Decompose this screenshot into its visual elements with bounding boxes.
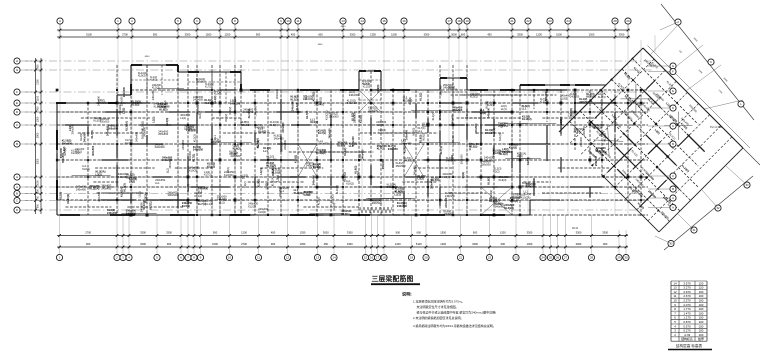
svg-text:950: 950: [37, 204, 40, 209]
svg-text:700: 700: [37, 195, 40, 200]
svg-text:1200: 1200: [241, 230, 247, 234]
svg-text:600: 600: [501, 242, 506, 246]
svg-text:450: 450: [291, 32, 296, 36]
svg-text:240x450: 240x450: [151, 90, 155, 101]
svg-text:450: 450: [487, 32, 492, 36]
svg-text:KL6(2): KL6(2): [233, 147, 241, 151]
svg-text:PL=-0.050: PL=-0.050: [710, 125, 723, 129]
svg-text:240x350: 240x350: [388, 147, 399, 151]
svg-text:16: 16: [370, 256, 374, 260]
svg-text:3300: 3300: [185, 32, 191, 36]
svg-text:KL2(3): KL2(3): [194, 194, 202, 198]
svg-text:2.未注明的梁箍筋加密区详见总说明。: 2.未注明的梁箍筋加密区详见总说明。: [413, 315, 464, 320]
svg-text:KL9(3): KL9(3): [408, 97, 412, 105]
svg-text:1500: 1500: [391, 32, 397, 36]
svg-text:10: 10: [286, 19, 290, 23]
svg-text:900: 900: [37, 106, 40, 111]
svg-text:240x450: 240x450: [76, 187, 87, 191]
svg-text:12: 12: [286, 256, 290, 260]
svg-text:L1(1): L1(1): [151, 116, 155, 122]
svg-text:1900: 1900: [37, 132, 40, 138]
svg-text:250x500: 250x500: [119, 96, 123, 107]
svg-text:KL3(2A): KL3(2A): [143, 192, 147, 202]
svg-text:L2(2): L2(2): [559, 119, 563, 125]
svg-text:KL10(2): KL10(2): [335, 185, 339, 194]
svg-text:KL3(2A): KL3(2A): [266, 164, 276, 168]
svg-text:300x500: 300x500: [196, 81, 206, 84]
svg-text:240x500: 240x500: [444, 212, 455, 216]
svg-text:L2(2): L2(2): [276, 175, 280, 181]
svg-text:900: 900: [153, 32, 158, 36]
svg-text:KL2(3): KL2(3): [598, 95, 606, 99]
svg-text:3300: 3300: [576, 230, 582, 234]
svg-text:17: 17: [376, 256, 380, 260]
svg-text:KL3(2A): KL3(2A): [325, 110, 329, 120]
svg-text:KL6(2): KL6(2): [258, 129, 266, 133]
svg-text:3300: 3300: [424, 32, 430, 36]
svg-text:240x600: 240x600: [118, 175, 129, 179]
svg-text:KL5(3): KL5(3): [257, 179, 261, 187]
svg-text:KL5(3): KL5(3): [270, 123, 278, 127]
svg-text:L1(1): L1(1): [461, 172, 465, 178]
svg-text:21: 21: [459, 256, 463, 260]
svg-text:KL10(2): KL10(2): [247, 109, 251, 119]
svg-text:L2(2): L2(2): [243, 181, 247, 187]
svg-text:KL7(1): KL7(1): [149, 201, 153, 209]
svg-text:三层梁配筋图: 三层梁配筋图: [372, 274, 414, 283]
svg-text:29: 29: [617, 256, 621, 260]
svg-text:L1(1): L1(1): [259, 168, 263, 174]
svg-text:L2(2): L2(2): [494, 170, 500, 174]
svg-text:KL2(3): KL2(3): [188, 128, 196, 132]
svg-text:L2(2): L2(2): [122, 108, 126, 114]
svg-text:240x600: 240x600: [349, 93, 360, 97]
svg-text:L1(1): L1(1): [185, 199, 189, 205]
svg-text:240x350: 240x350: [570, 96, 580, 99]
svg-text:3300: 3300: [619, 32, 625, 36]
svg-text:240x350: 240x350: [526, 185, 537, 189]
svg-text:KL2(3): KL2(3): [79, 133, 83, 141]
svg-text:240x350: 240x350: [445, 194, 456, 198]
svg-text:LL1: LL1: [155, 181, 160, 185]
svg-text:5100: 5100: [416, 242, 422, 246]
svg-text:4840: 4840: [318, 44, 324, 46]
svg-text:KL5(3): KL5(3): [470, 96, 478, 99]
svg-text:240x400: 240x400: [404, 129, 408, 140]
svg-text:3300: 3300: [347, 230, 353, 234]
svg-text:KL1(2): KL1(2): [343, 147, 347, 155]
svg-text:240x600: 240x600: [347, 101, 358, 105]
svg-text:900: 900: [213, 230, 218, 234]
svg-text:KL5(3): KL5(3): [165, 118, 169, 126]
svg-text:240x400: 240x400: [311, 175, 315, 186]
svg-text:KL6(2): KL6(2): [293, 155, 297, 163]
svg-text:17: 17: [447, 19, 451, 23]
svg-text:A: A: [672, 196, 674, 200]
svg-text:KL6(2): KL6(2): [524, 192, 532, 196]
svg-text:1500: 1500: [556, 32, 562, 36]
svg-text:L2(2): L2(2): [264, 183, 268, 189]
svg-text:250x500: 250x500: [368, 109, 379, 113]
svg-text:KL6(2): KL6(2): [310, 120, 318, 124]
svg-text:240x500: 240x500: [492, 147, 496, 158]
svg-text:3300: 3300: [347, 242, 353, 246]
svg-text:240x600: 240x600: [106, 125, 110, 136]
svg-text:1100: 1100: [37, 95, 40, 101]
svg-text:KL7(1): KL7(1): [318, 131, 326, 135]
svg-text:30: 30: [624, 256, 628, 260]
svg-text:250x500: 250x500: [122, 86, 126, 97]
svg-text:240x400: 240x400: [465, 107, 469, 118]
svg-text:15: 15: [382, 19, 386, 23]
svg-text:250x500: 250x500: [329, 115, 340, 119]
svg-text:250x500: 250x500: [62, 141, 73, 145]
svg-text:28: 28: [613, 19, 617, 23]
svg-text:KL7(1): KL7(1): [439, 146, 443, 154]
svg-text:240x600: 240x600: [211, 140, 222, 144]
svg-text:19: 19: [465, 19, 469, 23]
svg-text:240x600: 240x600: [231, 154, 242, 158]
svg-text:240x500: 240x500: [291, 101, 295, 112]
svg-text:KL9(3): KL9(3): [499, 178, 507, 182]
svg-text:LL1: LL1: [198, 190, 203, 194]
svg-text:C: C: [672, 124, 674, 128]
svg-text:48.44: 48.44: [572, 227, 579, 230]
svg-text:1350: 1350: [300, 230, 306, 234]
svg-text:1.本层梁顶标高除注明外均为3.570m。: 1.本层梁顶标高除注明外均为3.570m。: [413, 299, 465, 304]
svg-text:KL1(2): KL1(2): [295, 102, 299, 110]
svg-text:KL9(3): KL9(3): [207, 164, 215, 168]
svg-text:1200: 1200: [500, 230, 506, 234]
svg-text:KL3(2A): KL3(2A): [403, 143, 407, 153]
svg-text:板厚: 板厚: [698, 336, 704, 341]
svg-text:4840: 4840: [341, 26, 347, 28]
svg-text:KL9(3): KL9(3): [138, 75, 146, 78]
svg-text:F: F: [672, 70, 674, 74]
svg-text:3300: 3300: [350, 32, 356, 36]
svg-text:18: 18: [457, 19, 461, 23]
svg-text:240x400: 240x400: [278, 186, 282, 197]
svg-text:KL5(3): KL5(3): [376, 123, 384, 127]
svg-text:KL2(3): KL2(3): [152, 87, 160, 90]
svg-text:1200: 1200: [225, 32, 231, 36]
svg-text:KL1(2): KL1(2): [498, 133, 502, 141]
svg-text:KL5(3): KL5(3): [332, 203, 336, 211]
svg-text:未注明梁定位尺寸详见建施图。: 未注明梁定位尺寸详见建施图。: [417, 304, 459, 309]
svg-text:15: 15: [364, 256, 368, 260]
svg-text:250x500: 250x500: [438, 109, 442, 120]
svg-text:3300: 3300: [576, 242, 582, 246]
svg-text:900: 900: [167, 242, 172, 246]
svg-text:28: 28: [590, 256, 594, 260]
svg-text:300x500: 300x500: [356, 170, 360, 181]
svg-text:KL2(3): KL2(3): [317, 197, 321, 205]
svg-text:KL5(3): KL5(3): [98, 101, 106, 105]
svg-text:3300: 3300: [140, 242, 146, 246]
svg-text:KL7(1): KL7(1): [198, 202, 206, 206]
svg-text:L1(1): L1(1): [138, 191, 142, 197]
svg-text:K: K: [710, 60, 712, 64]
svg-text:240x450: 240x450: [599, 99, 603, 110]
svg-text:KL6(2): KL6(2): [258, 210, 266, 214]
svg-text:KL1(2): KL1(2): [205, 202, 213, 206]
svg-text:G: G: [672, 64, 674, 68]
svg-text:L2(2): L2(2): [62, 146, 66, 152]
svg-text:300x500: 300x500: [91, 145, 95, 156]
svg-text:1200: 1200: [440, 242, 446, 246]
svg-text:4840: 4840: [145, 56, 151, 58]
svg-text:23: 23: [514, 256, 518, 260]
svg-text:L1(1): L1(1): [180, 116, 186, 120]
svg-text:A: A: [672, 206, 674, 210]
svg-text:900: 900: [86, 242, 91, 246]
svg-text:240x450: 240x450: [430, 178, 434, 189]
svg-text:KL3(2A): KL3(2A): [125, 121, 129, 131]
svg-text:KL9(3): KL9(3): [214, 93, 222, 96]
svg-text:KL1(2): KL1(2): [213, 95, 217, 103]
svg-text:L2(2): L2(2): [316, 164, 320, 170]
svg-text:2700: 2700: [85, 230, 91, 234]
svg-text:240x350: 240x350: [404, 159, 415, 163]
svg-text:KL9(3): KL9(3): [569, 108, 573, 116]
svg-text:1300: 1300: [37, 116, 40, 122]
svg-text:KL10(2): KL10(2): [204, 101, 214, 105]
svg-text:KL9(3): KL9(3): [337, 143, 345, 147]
svg-text:240x400: 240x400: [134, 131, 138, 142]
svg-text:KL5(3): KL5(3): [469, 145, 477, 149]
svg-text:KL3(2A): KL3(2A): [89, 187, 99, 191]
svg-text:24: 24: [566, 19, 570, 23]
svg-text:240x450: 240x450: [101, 186, 112, 190]
svg-text:A: A: [59, 19, 61, 23]
svg-text:B: B: [16, 192, 18, 196]
svg-text:250x500: 250x500: [381, 159, 385, 170]
svg-text:KL7(1): KL7(1): [204, 173, 212, 177]
svg-text:LL1: LL1: [165, 168, 169, 173]
svg-text:3300: 3300: [602, 230, 608, 234]
svg-text:240x350: 240x350: [230, 101, 241, 105]
svg-text:KL9(3): KL9(3): [443, 175, 451, 179]
svg-text:650: 650: [37, 189, 40, 194]
svg-text:KL7(1): KL7(1): [90, 130, 94, 138]
svg-text:KL2(3): KL2(3): [248, 204, 256, 208]
svg-text:LL1: LL1: [263, 149, 268, 153]
svg-text:KL7(1): KL7(1): [125, 141, 133, 145]
svg-text:H: H: [16, 59, 18, 63]
svg-text:240x450: 240x450: [413, 165, 417, 176]
svg-text:KL7(1): KL7(1): [341, 212, 349, 216]
svg-text:19: 19: [410, 256, 414, 260]
svg-text:300x500: 300x500: [241, 123, 252, 127]
svg-text:KL9(3): KL9(3): [510, 199, 518, 203]
svg-text:900: 900: [271, 242, 276, 246]
svg-text:结构层高 标高表: 结构层高 标高表: [676, 343, 703, 348]
svg-text:18: 18: [382, 256, 386, 260]
svg-text:14: 14: [360, 19, 364, 23]
svg-text:KL9(3): KL9(3): [412, 128, 416, 136]
svg-text:250x500: 250x500: [100, 121, 110, 124]
svg-text:22: 22: [526, 19, 530, 23]
svg-text:A: A: [16, 175, 18, 179]
svg-text:KL6(2): KL6(2): [489, 190, 493, 198]
svg-text:F: F: [16, 90, 18, 94]
svg-text:D: D: [672, 106, 674, 110]
svg-text:300x500: 300x500: [372, 201, 383, 205]
svg-text:KL6(2): KL6(2): [198, 111, 202, 119]
svg-text:2100: 2100: [37, 79, 40, 85]
svg-text:L1(1): L1(1): [304, 193, 310, 197]
svg-text:B: B: [672, 187, 674, 191]
svg-text:3.梁吊筋除注明者外均为2Φ14,吊筋构造做法详见结构总说明: 3.梁吊筋除注明者外均为2Φ14,吊筋构造做法详见结构总说明。: [413, 323, 496, 328]
svg-text:240x600: 240x600: [450, 114, 454, 125]
svg-text:240x500: 240x500: [254, 105, 258, 116]
svg-text:KL7(1): KL7(1): [256, 140, 260, 148]
svg-text:11: 11: [257, 256, 260, 260]
svg-text:KL3(2A): KL3(2A): [540, 101, 549, 104]
svg-text:3300: 3300: [472, 242, 478, 246]
svg-text:240x450: 240x450: [274, 137, 285, 141]
svg-text:1000: 1000: [37, 180, 40, 186]
svg-text:L1(1): L1(1): [501, 107, 507, 111]
svg-text:KL6(2): KL6(2): [82, 167, 90, 171]
svg-text:240x500: 240x500: [451, 134, 455, 145]
svg-text:C: C: [672, 174, 674, 178]
svg-text:13: 13: [341, 19, 345, 23]
svg-text:240x600: 240x600: [328, 128, 332, 139]
svg-text:11: 11: [296, 19, 299, 23]
svg-text:240x350: 240x350: [443, 87, 453, 90]
svg-text:240x400: 240x400: [360, 149, 364, 160]
svg-text:2700: 2700: [241, 242, 247, 246]
svg-text:KL9(3): KL9(3): [422, 133, 426, 141]
svg-text:3300: 3300: [527, 230, 533, 234]
svg-text:600: 600: [473, 230, 478, 234]
svg-text:3300: 3300: [517, 32, 523, 36]
svg-text:KL3(2A): KL3(2A): [224, 173, 234, 177]
svg-text:KL2(3): KL2(3): [59, 192, 63, 200]
svg-text:KL7(1): KL7(1): [305, 110, 309, 118]
svg-text:13: 13: [316, 256, 320, 260]
svg-text:LL1: LL1: [418, 129, 423, 133]
svg-text:5100: 5100: [86, 32, 92, 36]
svg-text:KL7(1): KL7(1): [377, 147, 385, 151]
svg-text:B: B: [672, 142, 674, 146]
svg-text:240x600: 240x600: [485, 131, 496, 135]
svg-text:KL6(2): KL6(2): [346, 182, 354, 186]
svg-text:KL10(2): KL10(2): [331, 194, 335, 203]
svg-text:KL1(2): KL1(2): [431, 112, 435, 120]
svg-text:KL9(3): KL9(3): [560, 96, 568, 100]
svg-text:240x450: 240x450: [217, 197, 228, 201]
svg-text:240x600: 240x600: [140, 202, 144, 213]
svg-text:240x450: 240x450: [267, 157, 278, 161]
svg-text:KL10(2): KL10(2): [66, 194, 70, 204]
svg-text:300x500: 300x500: [70, 124, 74, 135]
svg-text:LL1: LL1: [240, 176, 245, 180]
svg-text:KL6(2): KL6(2): [228, 107, 232, 115]
svg-text:240x600: 240x600: [303, 97, 314, 101]
svg-text:KL10(2): KL10(2): [272, 170, 282, 174]
svg-text:KL5(3): KL5(3): [487, 103, 495, 107]
svg-text:L1(1): L1(1): [517, 154, 523, 158]
svg-text:250x500: 250x500: [396, 164, 407, 168]
svg-text:KL2(3): KL2(3): [363, 86, 370, 89]
svg-text:240x500: 240x500: [82, 132, 86, 143]
svg-text:300x500: 300x500: [168, 193, 179, 197]
svg-text:KL5(3): KL5(3): [358, 115, 362, 123]
svg-text:600: 600: [318, 32, 323, 36]
svg-text:A: A: [16, 185, 18, 189]
svg-text:KL1(2): KL1(2): [291, 98, 299, 102]
svg-text:240x500: 240x500: [446, 159, 457, 163]
svg-text:300x500: 300x500: [275, 88, 279, 99]
svg-text:22: 22: [488, 256, 492, 260]
svg-text:KL10(2): KL10(2): [154, 104, 163, 108]
svg-text:L1(1): L1(1): [395, 192, 401, 196]
svg-text:250x500: 250x500: [158, 132, 169, 136]
svg-text:B: B: [16, 142, 18, 146]
svg-text:KL2(3): KL2(3): [193, 134, 197, 142]
svg-text:240x400: 240x400: [314, 103, 325, 107]
svg-text:29: 29: [626, 19, 630, 23]
svg-text:300x500: 300x500: [97, 191, 101, 202]
svg-text:L2(2): L2(2): [480, 111, 486, 115]
svg-text:24: 24: [541, 256, 545, 260]
svg-text:KL5(3): KL5(3): [509, 145, 517, 149]
svg-text:1200: 1200: [395, 242, 401, 246]
svg-text:KL3(2A): KL3(2A): [120, 187, 124, 197]
svg-text:KL7(1): KL7(1): [316, 151, 324, 155]
svg-text:KL5(3): KL5(3): [362, 83, 370, 86]
svg-text:14: 14: [332, 256, 336, 260]
svg-text:300x500: 300x500: [438, 85, 442, 96]
svg-text:LL1: LL1: [378, 131, 383, 135]
svg-text:E: E: [672, 89, 674, 93]
svg-text:KL1(2): KL1(2): [224, 114, 228, 122]
svg-text:27: 27: [564, 256, 568, 260]
svg-text:250x500: 250x500: [460, 154, 464, 165]
svg-text:1500: 1500: [206, 32, 212, 36]
svg-text:1300: 1300: [589, 32, 595, 36]
svg-text:2700: 2700: [122, 32, 128, 36]
svg-text:240x500: 240x500: [397, 204, 408, 208]
svg-text:20: 20: [424, 256, 428, 260]
svg-text:250x500: 250x500: [452, 108, 463, 112]
svg-text:KL5(3): KL5(3): [163, 100, 167, 108]
svg-text:LL1: LL1: [500, 122, 504, 127]
svg-text:240x600: 240x600: [579, 136, 583, 147]
svg-text:450: 450: [324, 242, 329, 246]
svg-text:26: 26: [556, 256, 560, 260]
svg-text:结构标高: 结构标高: [681, 336, 693, 341]
svg-text:KL2(3): KL2(3): [186, 184, 190, 192]
svg-text:3300: 3300: [37, 158, 40, 164]
svg-text:KL2(3): KL2(3): [75, 151, 82, 154]
svg-text:LL1: LL1: [422, 124, 427, 128]
svg-text:KL3(2A): KL3(2A): [270, 177, 274, 187]
svg-text:600: 600: [37, 64, 40, 69]
svg-text:KL7(1): KL7(1): [205, 86, 212, 89]
svg-text:240x400: 240x400: [444, 197, 448, 208]
svg-text:16: 16: [402, 19, 406, 23]
svg-text:3300: 3300: [166, 230, 172, 234]
svg-text:240x350: 240x350: [181, 139, 185, 150]
svg-text:25: 25: [549, 256, 553, 260]
svg-text:240x450: 240x450: [319, 142, 330, 146]
svg-text:900: 900: [396, 230, 401, 234]
svg-text:1300: 1300: [527, 242, 533, 246]
svg-text:240x400: 240x400: [351, 136, 355, 147]
